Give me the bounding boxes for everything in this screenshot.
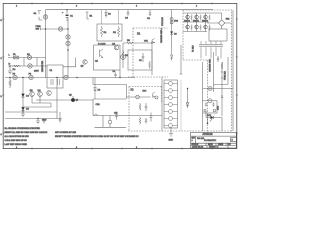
svg-text:EXCEPT WHERE SPECIFIED RESISTO: EXCEPT WHERE SPECIFIED RESISTORS IN OHMS… <box>55 135 139 138</box>
resistor R3 <box>122 50 129 60</box>
transistor Q5 <box>30 90 35 96</box>
wire box3 left drop <box>202 62 204 131</box>
relay RY1 <box>127 91 155 99</box>
antenna stub E1 <box>86 12 93 19</box>
wire y100 right <box>36 99 93 101</box>
capacitor C16 <box>114 112 118 120</box>
wire jog y84.5 <box>93 78 127 100</box>
wire q mesh <box>23 96 51 107</box>
fuse F5 <box>221 70 227 80</box>
svg-text:2N3771: 2N3771 <box>202 20 208 22</box>
wire right bus x233 <box>232 10 234 131</box>
wire x213.5 <box>213 52 215 92</box>
svg-text:230V: 230V <box>34 71 39 73</box>
resistor RE2 <box>200 15 202 21</box>
wire x152 down <box>151 43 153 75</box>
relay contact K2b <box>155 96 158 99</box>
resistor R7 <box>139 103 141 111</box>
capacitor C13 <box>212 103 214 107</box>
svg-text:GND: GND <box>42 120 47 122</box>
resistor R9 <box>139 117 141 124</box>
svg-text:CHASSIS GND A: CHASSIS GND A <box>160 28 163 43</box>
svg-text:2: 2 <box>136 147 137 149</box>
terminal strip TB1 <box>162 77 178 131</box>
transistor Q15 <box>204 25 208 29</box>
meter M3 box <box>203 99 220 113</box>
svg-text:SCR: SCR <box>207 115 212 117</box>
wire x123 vertical <box>122 43 124 68</box>
wire stub x181 <box>180 45 183 74</box>
lamp DS3 <box>66 35 70 39</box>
svg-text:NO: NO <box>228 144 232 146</box>
ground earth <box>8 65 40 74</box>
resistor R8 <box>221 62 223 70</box>
capacitor C11 <box>217 56 219 62</box>
svg-text:ASTRON: ASTRON <box>203 133 213 136</box>
transistor Q6 <box>38 90 43 96</box>
svg-text:SCALE: SCALE <box>192 143 199 146</box>
meter M1 <box>121 55 126 60</box>
wire bus y77.5 <box>5 77 135 79</box>
switch contact S2 <box>27 54 32 60</box>
dashed power module PS1 <box>128 10 232 131</box>
lamp DS2 <box>58 27 62 31</box>
wire link x24 <box>23 58 25 67</box>
wire main left vertical <box>45 10 47 78</box>
transistor Q3 <box>81 60 88 68</box>
svg-text:SET SCREWS AT LINE: SET SCREWS AT LINE <box>55 131 77 134</box>
junction <box>45 28 46 29</box>
resistor wire y43 <box>123 42 152 44</box>
svg-text:3: 3 <box>76 6 77 8</box>
dashed module X1 <box>128 28 168 77</box>
ground earth 2 <box>36 118 47 124</box>
svg-text:SHEET 1: SHEET 1 <box>209 147 218 149</box>
diode D6 <box>94 78 101 100</box>
capacitor C8 <box>145 103 148 111</box>
svg-text:3: 3 <box>76 147 77 149</box>
SCR1 <box>206 112 222 131</box>
switch S1 <box>34 11 43 31</box>
diode D4 <box>22 94 30 98</box>
relay K1 box <box>47 65 63 88</box>
svg-text:2: 2 <box>136 6 137 8</box>
capacitor C2 <box>125 10 129 20</box>
resistor RE3 <box>209 15 211 21</box>
transistor Q10 <box>186 15 190 19</box>
bridge BR1 <box>207 13 232 29</box>
fuse F4 <box>64 75 68 79</box>
wire x23 vertical <box>22 78 24 113</box>
diode D5 <box>22 107 30 110</box>
capacitor C7 <box>59 112 61 123</box>
wire pass bus rows <box>183 13 222 32</box>
box regulator <box>128 50 152 70</box>
resistor RE5 <box>200 25 202 31</box>
transistor Q8 <box>69 95 79 102</box>
svg-text:FUSE 25A: FUSE 25A <box>224 70 227 80</box>
svg-text:2N3771: 2N3771 <box>184 20 190 22</box>
svg-text:SCHEMATIC: SCHEMATIC <box>204 139 217 142</box>
capacitor C14 <box>145 118 147 124</box>
capacitor C9 <box>150 113 153 122</box>
resistor R6 <box>149 61 151 69</box>
transistor Q1 <box>95 49 103 63</box>
wire AC line N <box>8 63 47 66</box>
diode D7 <box>186 88 189 108</box>
svg-text:LINE FILTER: LINE FILTER <box>42 60 44 72</box>
switch contact S3 <box>28 64 32 68</box>
terminal 7 <box>164 124 178 128</box>
wire AC line L <box>8 55 46 58</box>
capacitor C15 <box>221 96 223 97</box>
transformer T1 box <box>209 29 227 41</box>
fuse F2 <box>13 74 18 80</box>
resistor R5 label <box>127 40 149 43</box>
resistor R4 <box>13 65 22 71</box>
terminal 6 <box>164 117 178 121</box>
ground chassis <box>21 112 25 117</box>
svg-text:DATE 10-81: DATE 10-81 <box>192 146 204 149</box>
transistor Q2 <box>112 44 119 50</box>
left lower: wire y112 <box>5 111 57 113</box>
lamp DS7 <box>66 41 70 45</box>
resistor RE1 <box>191 15 193 21</box>
capacitor C3 <box>147 10 151 20</box>
dashed module X2 <box>129 87 162 132</box>
resistor RE6 <box>209 25 211 31</box>
wire x222 vertical <box>221 62 223 116</box>
lamp DS6 <box>208 86 212 90</box>
wire link x37 <box>36 58 38 67</box>
svg-text:RESIST ALL RES IN OHMS 1/4W 5%: RESIST ALL RES IN OHMS 1/4W 5% CARBON <box>5 131 48 134</box>
transformer T1 core <box>193 41 224 59</box>
resistor R10 <box>9 77 11 88</box>
svg-text:MTR: MTR <box>218 105 220 110</box>
title block <box>191 132 237 148</box>
svg-text:LAST REF DESIG USED: LAST REF DESIG USED <box>5 143 28 146</box>
wire x181 faint <box>180 80 182 131</box>
svg-text:4: 4 <box>16 6 17 8</box>
wire top bus <box>46 9 214 11</box>
fuse F1 <box>13 54 19 59</box>
box A1 resistors <box>97 10 122 46</box>
svg-text:BR1: BR1 <box>226 19 230 21</box>
lamp DS1 <box>43 15 47 19</box>
capacitor C12 <box>205 103 207 107</box>
ground earth 3 <box>169 128 174 142</box>
capacitor C6 <box>43 119 45 124</box>
diode D1 <box>105 10 112 18</box>
diode D2 <box>170 32 177 36</box>
svg-text:VOLT ADJ: VOLT ADJ <box>161 17 164 26</box>
terminal 2 <box>164 89 178 93</box>
wire y118.5 <box>5 118 62 120</box>
svg-text:T1 SEC: T1 SEC <box>193 45 195 52</box>
border frame <box>1 2 239 150</box>
wire base y29 <box>41 28 69 30</box>
transistor Q14 <box>195 25 199 29</box>
wire x57 vertical <box>56 78 58 119</box>
terminal 5 <box>164 110 178 114</box>
transistor Q12 <box>204 15 208 19</box>
svg-text:X1: X1 <box>137 32 141 36</box>
terminal 4 <box>164 103 178 107</box>
diode D3 arrow <box>171 48 173 61</box>
wire y84.5 <box>214 57 229 85</box>
terminal 1 <box>164 82 178 86</box>
svg-text:2N3771: 2N3771 <box>193 20 199 22</box>
svg-text:GND: GND <box>169 140 174 142</box>
svg-text:C16: C16 <box>114 113 117 115</box>
lamp DS5 <box>108 116 112 128</box>
wire riser <box>63 58 76 67</box>
wire y88.5 <box>203 88 233 90</box>
transistor Q13 <box>186 25 190 29</box>
transistor Q7 <box>47 91 52 96</box>
fuse F3 <box>29 74 34 80</box>
svg-text:CHASSIS GND: CHASSIS GND <box>209 58 212 72</box>
svg-text:NL: UNLESS OTHERWISE SPECIFIED: NL: UNLESS OTHERWISE SPECIFIED <box>5 128 41 130</box>
wire x68 vertical <box>67 18 69 78</box>
svg-text:DWG: DWG <box>218 144 223 146</box>
capacitor C5 <box>139 53 144 62</box>
svg-text:1: 1 <box>196 6 197 8</box>
svg-text:COILS AND WDG IN UH: COILS AND WDG IN UH <box>5 139 28 142</box>
svg-text:ALL CAPACITORS IN MFD: ALL CAPACITORS IN MFD <box>5 135 30 138</box>
capacitor C1 <box>62 9 74 21</box>
wire x171.6 vertical <box>171 10 173 48</box>
svg-text:4: 4 <box>16 147 17 149</box>
capacitor C4 <box>113 71 117 78</box>
transistor Q4 <box>151 38 155 43</box>
resistor RE4 <box>191 25 193 31</box>
notes text block <box>5 128 140 146</box>
led DS4 <box>170 18 179 24</box>
terminal 3 <box>164 96 178 100</box>
box Q-pass section <box>94 45 121 78</box>
PCB box lower <box>93 99 162 127</box>
transistor Q11 <box>195 15 199 19</box>
